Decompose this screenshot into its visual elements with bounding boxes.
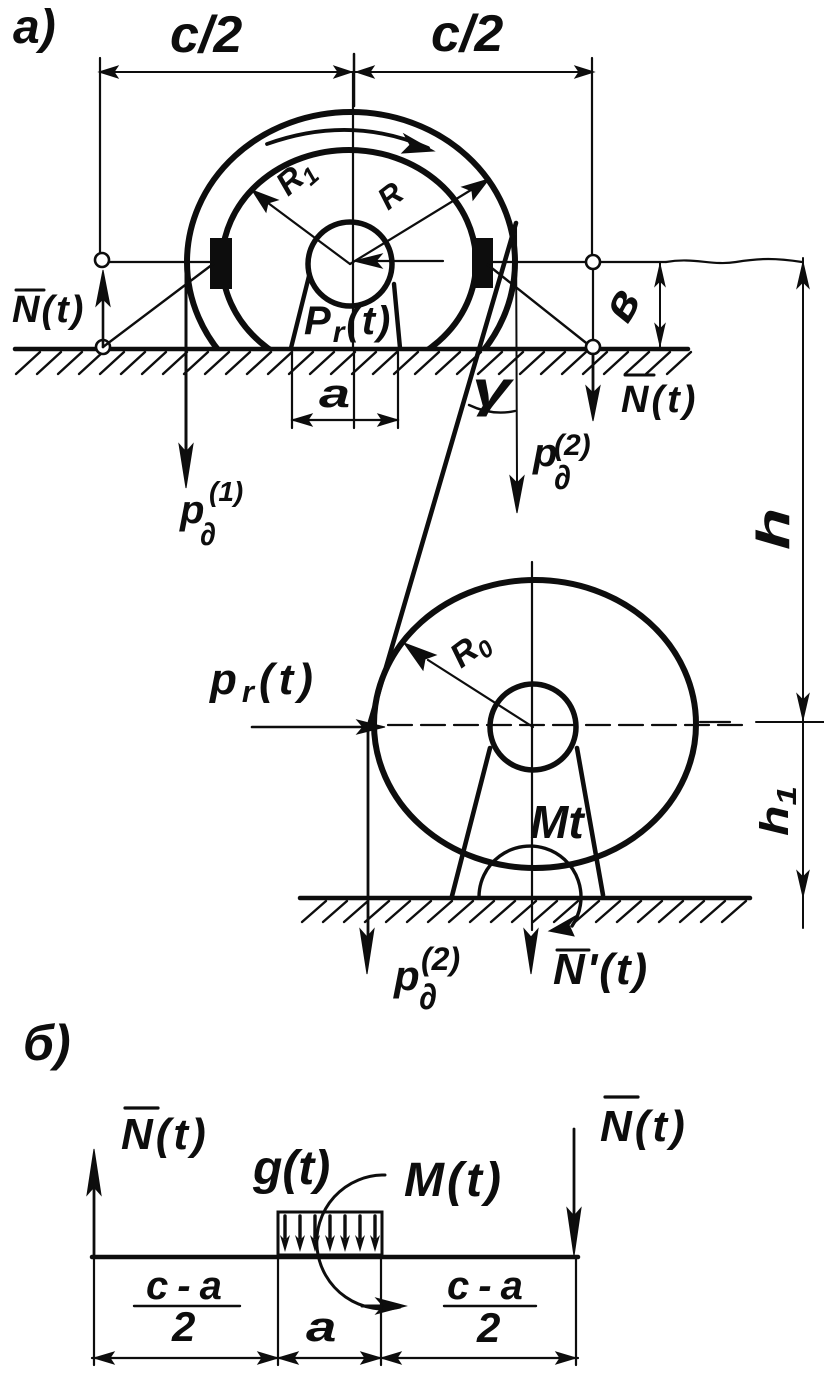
axle center arrow (left pointing)	[364, 260, 443, 262]
svg-text:h1: h1	[752, 786, 802, 836]
extension line left x=100	[99, 58, 101, 254]
N(t) up arrow (beam left)	[93, 1160, 96, 1257]
svg-text:(2): (2)	[421, 941, 460, 977]
radius R arrowhead	[462, 179, 489, 200]
N(t) left up arrow	[102, 276, 105, 347]
svg-text:2: 2	[476, 1304, 500, 1351]
N'(t) down arrow	[524, 929, 538, 974]
p_d2 upper arrowhead	[510, 476, 524, 513]
wavy extension to h line	[666, 259, 802, 263]
lower drum axle circle	[490, 684, 576, 770]
svg-text:N(t): N(t)	[121, 1110, 209, 1159]
lower drum horizontal centerline dashed	[388, 724, 748, 726]
svg-text:h: h	[748, 508, 799, 550]
svg-text:pr(t): pr(t)	[209, 655, 318, 709]
svg-text:(1): (1)	[209, 476, 243, 507]
ground 2 hatching	[302, 901, 746, 922]
svg-text:∂: ∂	[200, 516, 216, 552]
svg-text:c-a: c-a	[447, 1264, 532, 1308]
ground 1 hatching	[16, 352, 691, 374]
radius R1 line	[256, 194, 350, 264]
dimension arrow mid-left	[334, 66, 352, 78]
node circle left lower	[96, 340, 110, 354]
drum1 pedestal left leg	[291, 276, 309, 348]
lower pedestal right leg	[577, 748, 603, 895]
svg-text:N(t): N(t)	[12, 289, 85, 331]
radius R line	[350, 182, 484, 264]
dimension b vertical line	[659, 263, 661, 347]
drum1 axle circle	[308, 222, 392, 306]
svg-text:в: в	[591, 280, 651, 330]
right damper block	[472, 238, 493, 288]
beam	[92, 1255, 578, 1260]
svg-text:c/2: c/2	[170, 6, 242, 64]
drum1 outer circle R	[187, 112, 515, 412]
svg-text:g(t): g(t)	[252, 1142, 330, 1195]
Mt moment arc	[479, 846, 581, 926]
svg-text:p: p	[393, 952, 420, 999]
svg-text:a: a	[306, 1304, 336, 1351]
svg-text:N(t): N(t)	[621, 379, 698, 421]
extension line right x=592	[591, 58, 593, 255]
svg-text:N'(t): N'(t)	[553, 945, 649, 994]
gamma angle arc	[469, 405, 515, 413]
ground 2 line	[300, 896, 750, 901]
N(t) right down arrow	[592, 354, 595, 396]
h dimension vertical line	[802, 258, 804, 928]
drum1 vertical centerline	[352, 72, 354, 349]
dimension tick mid	[353, 54, 356, 106]
dimension a extension left	[291, 352, 293, 428]
bottom dimension extension lines	[93, 1257, 95, 1365]
drum1 pedestal right leg	[394, 284, 400, 348]
svg-text:M(t): M(t)	[404, 1154, 504, 1207]
svg-text:∂: ∂	[554, 459, 571, 497]
dimension line c/2 c/2	[100, 71, 592, 73]
h/h1 mid tick	[756, 721, 824, 723]
lower pedestal left leg	[452, 748, 490, 896]
svg-text:c-a: c-a	[146, 1264, 231, 1308]
lower drum outer circle R0	[374, 580, 696, 868]
drum1 inner circle R1	[222, 150, 476, 374]
svg-text:∂: ∂	[419, 976, 437, 1017]
svg-text:а): а)	[13, 1, 56, 54]
radius R1 arrowhead	[252, 190, 278, 212]
svg-text:Mt: Mt	[530, 796, 585, 848]
svg-text:c/2: c/2	[431, 5, 503, 63]
dimension arrow left end	[99, 66, 118, 78]
horizontal axis line right segment	[493, 261, 666, 263]
node circle left upper	[95, 253, 109, 267]
svg-text:(2): (2)	[554, 429, 591, 462]
label p_d2 lower	[393, 941, 460, 1017]
svg-text:R: R	[371, 175, 411, 217]
horizontal axis line left segment	[102, 261, 210, 263]
distributed load box	[278, 1212, 382, 1255]
brace diagonal left	[103, 264, 213, 347]
rope to lower drum	[370, 223, 516, 722]
N(t) down arrow (beam right)	[573, 1129, 576, 1225]
node circle right upper	[586, 255, 600, 269]
dimension arrow mid-right	[356, 66, 374, 78]
vertical reference line at tangent point	[516, 223, 517, 482]
left damper block	[210, 238, 232, 289]
svg-text:б): б)	[23, 1015, 71, 1071]
M(t) moment arc	[317, 1175, 400, 1309]
connecting line right nodes	[592, 269, 594, 340]
dimension a line	[292, 419, 398, 421]
rotation direction arc	[267, 130, 428, 148]
load arrows	[285, 1216, 375, 1238]
dimension arrow right end	[575, 66, 594, 78]
p_d2 lower force line	[367, 724, 370, 938]
node circle right lower	[586, 340, 600, 354]
p_r(t) force arrow	[252, 726, 377, 729]
svg-text:Pr(t): Pr(t)	[304, 299, 392, 349]
radius R0 line	[428, 660, 533, 727]
svg-text:R0: R0	[443, 622, 500, 680]
lower drum vertical centerline	[531, 562, 533, 930]
rotation arrow head	[402, 134, 434, 153]
svg-text:2: 2	[171, 1303, 195, 1350]
svg-text:a: a	[319, 372, 350, 416]
p_d1 force line	[185, 262, 188, 452]
brace diagonal right	[488, 265, 590, 346]
label p_d2 upper	[532, 429, 591, 497]
ground 1 line	[15, 347, 688, 352]
dimension a extension right	[397, 352, 399, 428]
svg-text:N(t): N(t)	[600, 1102, 688, 1151]
bottom dimension line	[92, 1357, 578, 1359]
svg-text:γ: γ	[472, 361, 515, 417]
label p_d1	[179, 476, 243, 552]
